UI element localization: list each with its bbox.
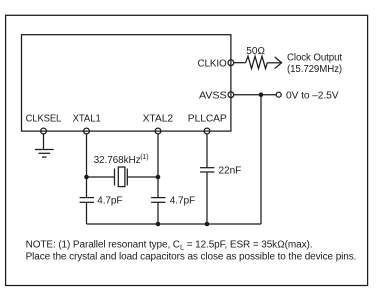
svg-text:NOTE: (1) Parallel resonant ty: NOTE: (1) Parallel resonant type, CL = 1… <box>26 239 313 251</box>
pin XTAL2 <box>143 114 174 134</box>
svg-text:4.7pF: 4.7pF <box>97 196 122 207</box>
svg-text:XTAL1: XTAL1 <box>73 114 102 125</box>
capacitor C1 <box>80 198 94 203</box>
junction rail XTAL2 <box>156 222 161 227</box>
svg-text:PLLCAP: PLLCAP <box>188 114 227 125</box>
wire PLLCAP down <box>206 134 208 168</box>
wire C3 to rail <box>206 172 208 224</box>
pin XTAL1 <box>73 114 102 134</box>
label 32.768kHz(1) <box>94 154 149 166</box>
wire XTAL2 down <box>157 134 159 198</box>
junction XTAL1 crystal <box>84 175 89 180</box>
svg-text:CLKIO: CLKIO <box>198 59 227 70</box>
svg-text:22nF: 22nF <box>219 166 242 177</box>
label Clock Output (15.729MHz) <box>287 52 342 75</box>
wire C2 to rail <box>157 202 159 224</box>
svg-text:AVSS: AVSS <box>199 91 227 102</box>
note text <box>26 239 357 262</box>
svg-text:XTAL2: XTAL2 <box>143 114 174 125</box>
svg-text:0V to –2.5V: 0V to –2.5V <box>286 91 339 102</box>
ground rail <box>87 223 262 225</box>
crystal Y1 <box>87 167 159 187</box>
svg-text:(1): (1) <box>140 154 148 161</box>
svg-text:Place the crystal and load cap: Place the crystal and load capacitors as… <box>26 252 357 263</box>
junction XTAL2 crystal <box>156 175 161 180</box>
terminal 0V <box>276 92 281 97</box>
svg-text:32.768kHz: 32.768kHz <box>94 155 141 166</box>
capacitor C3 <box>200 168 214 172</box>
resistor R1 <box>246 56 268 68</box>
wire XTAL1 down <box>86 134 88 198</box>
pin CLKSEL <box>26 114 62 134</box>
wire C1 to rail <box>86 202 88 224</box>
capacitor C2 <box>151 198 165 203</box>
svg-text:(15.729MHz): (15.729MHz) <box>287 64 342 75</box>
pin PLLCAP <box>188 114 227 134</box>
svg-text:4.7pF: 4.7pF <box>170 196 195 207</box>
junction AVSS rail <box>259 92 264 97</box>
wire CLKIO to R1 <box>234 62 246 64</box>
arrow to clock output <box>267 57 281 69</box>
wire AVSS to terminal <box>234 94 276 96</box>
wire AVSS down to ground rail <box>260 95 262 224</box>
junction rail PLLCAP <box>205 222 210 227</box>
ground <box>35 134 54 157</box>
svg-text:CLKSEL: CLKSEL <box>26 114 62 125</box>
svg-text:50Ω: 50Ω <box>246 46 265 57</box>
svg-text:Clock Output: Clock Output <box>287 52 342 63</box>
pin CLKIO <box>198 59 234 70</box>
pin AVSS <box>199 91 234 102</box>
IC device box <box>22 35 231 131</box>
